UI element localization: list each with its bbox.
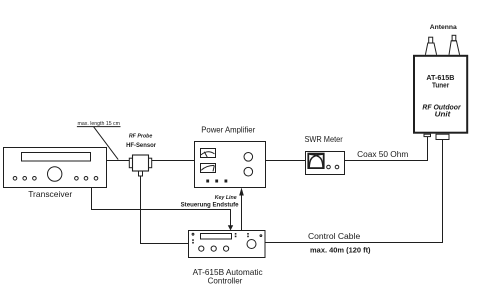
svg-text:RF Probe: RF Probe xyxy=(129,134,153,140)
svg-text:RF Outdoor: RF Outdoor xyxy=(422,104,462,111)
wire: control cable tuner to controller xyxy=(265,140,443,243)
leader line for max length note xyxy=(77,127,121,160)
svg-text:Transceiver: Transceiver xyxy=(28,189,72,199)
wire: HF-Sensor to controller xyxy=(141,176,189,244)
svg-text:Coax 50 Ohm: Coax 50 Ohm xyxy=(357,150,409,159)
svg-text:Key Line: Key Line xyxy=(215,195,237,201)
transceiver unit xyxy=(4,148,107,188)
svg-text:AT-615B: AT-615B xyxy=(426,75,454,82)
svg-text:SWR Meter: SWR Meter xyxy=(304,135,343,144)
svg-text:Controller: Controller xyxy=(208,276,243,286)
wire: transceiver to HF-Sensor xyxy=(107,160,130,162)
wire: controller key line to power amplifier xyxy=(241,195,243,231)
wire: HF-Sensor to power amplifier xyxy=(152,160,195,162)
svg-text:max. 40m (120 ft): max. 40m (120 ft) xyxy=(310,247,371,254)
wire: power amplifier to SWR meter xyxy=(266,160,306,162)
AT-615B tuner RF outdoor unit xyxy=(414,35,467,139)
arrowhead into controller xyxy=(228,225,233,230)
svg-text:Unit: Unit xyxy=(435,111,451,118)
SWR meter unit xyxy=(306,152,345,175)
wire: coax from SWR meter to tuner xyxy=(345,137,428,161)
AT-615B automatic controller unit xyxy=(189,231,266,258)
HF-Sensor RF probe xyxy=(129,155,151,176)
svg-text:HF-Sensor: HF-Sensor xyxy=(126,142,156,149)
arrowhead into power amplifier xyxy=(239,188,244,196)
power amplifier unit xyxy=(195,142,266,188)
svg-text:Tuner: Tuner xyxy=(432,83,449,90)
wire: transceiver key line to controller xyxy=(92,188,231,227)
svg-text:Steuerung Endstufe: Steuerung Endstufe xyxy=(181,201,240,208)
svg-text:Antenna: Antenna xyxy=(430,24,457,31)
svg-text:Control Cable: Control Cable xyxy=(308,232,361,241)
svg-text:Power Amplifier: Power Amplifier xyxy=(201,125,255,135)
